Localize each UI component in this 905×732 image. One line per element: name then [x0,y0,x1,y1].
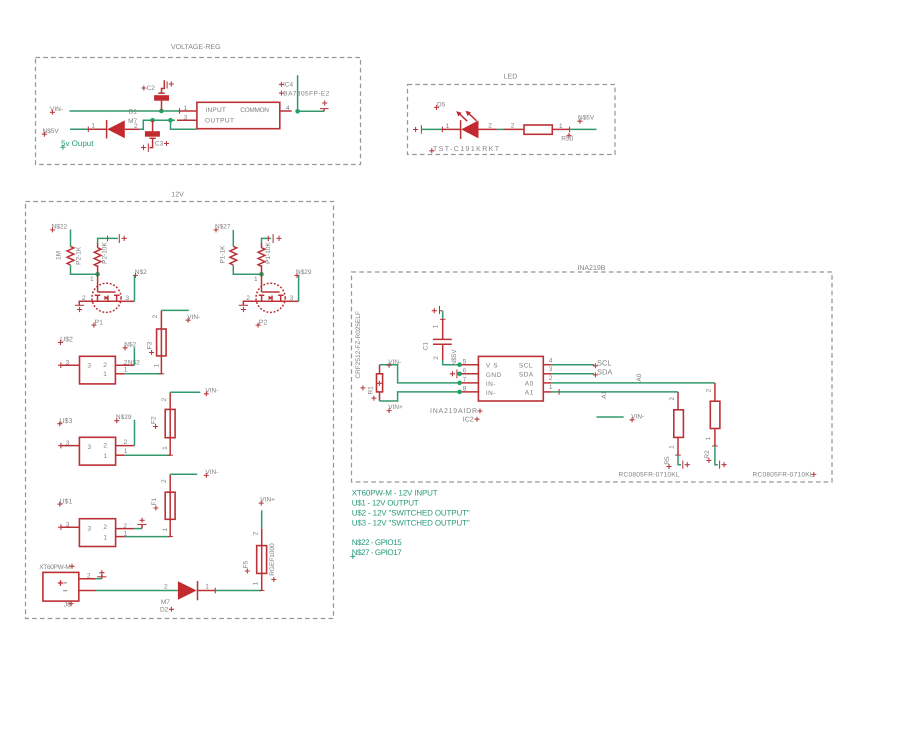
capacitor C3 [145,120,169,147]
svg-text:P2: P2 [259,320,268,327]
svg-text:1: 1 [124,366,128,373]
svg-text:1: 1 [205,584,209,591]
svg-text:N$5V: N$5V [451,349,458,366]
net label N$29 [114,414,132,423]
net label VIN- [387,359,402,368]
net label SDA [593,368,613,378]
value RGEF1000 [269,543,277,582]
svg-text:SDA: SDA [597,368,612,377]
svg-text:R1: R1 [367,386,374,395]
net label N$5V [577,115,595,124]
pin 3 of IC4 [177,119,197,121]
net label VIN- [186,314,201,323]
resistor R5 [674,392,684,455]
value RC0805FR-0710KL right [753,472,817,479]
svg-text:XT60PW-M: XT60PW-M [39,564,70,571]
wire VIN- R1 to pin7 [380,365,460,383]
gnd at P2 source [239,305,248,312]
junction output [168,118,173,123]
svg-text:5: 5 [463,358,467,365]
wire R5 to gnd [678,455,681,465]
svg-text:1: 1 [91,123,95,130]
svg-text:P2-10K: P2-10K [101,241,108,263]
svg-text:RC0805FR-0710KL: RC0805FR-0710KL [619,472,680,479]
wire N$29 vertical [134,420,136,446]
svg-text:INA219AIDR: INA219AIDR [430,408,477,415]
LED D5 [456,111,497,139]
wire F1 to VIN- [170,473,197,475]
net label N$2 [123,341,137,350]
resistor P1-1K [230,246,237,265]
svg-text:N$27 - GPIO17: N$27 - GPIO17 [352,548,403,557]
svg-text:N$22 - GPIO15: N$22 - GPIO15 [352,538,403,547]
svg-text:INPUT: INPUT [205,107,226,114]
svg-text:3: 3 [184,114,188,121]
svg-text:2: 2 [669,397,676,401]
wire gnd to D5 [421,128,442,130]
transistor P2 [256,274,285,312]
pin 1 of U$2 wire to F3 [115,373,124,375]
net label N$5V [42,128,60,137]
svg-text:U$1 - 12V OUTPUT: U$1 - 12V OUTPUT [352,499,419,508]
svg-text:1: 1 [90,276,94,283]
wire A0 [551,382,715,384]
connector U$1 [57,497,72,506]
wire F3 to VIN- [161,309,188,311]
svg-text:1: 1 [549,384,553,391]
resistor P2-10K [94,243,101,274]
svg-text:2: 2 [124,439,128,446]
gnd below R2 [720,461,727,469]
name R5 [664,456,672,469]
wire A1 [551,391,678,393]
svg-text:N$29: N$29 [296,269,312,276]
pin 1 of IC4 [180,110,197,112]
pin 1 of D5 [441,127,443,133]
wire D5 to R50 [497,128,503,130]
net label N$2 [133,269,147,278]
svg-text:1: 1 [668,445,675,449]
svg-text:V S: V S [486,362,498,369]
pin 2 of P2 to gnd [243,301,256,305]
pin 2 of U$3 wire [116,445,135,447]
pin 3 of P2 wire to N$29 [285,300,299,302]
wire SCL [551,364,594,366]
resistor R2 [710,383,720,446]
svg-text:1: 1 [433,324,440,328]
name R2 [704,450,712,463]
svg-text:2: 2 [103,524,107,531]
svg-text:OUTPUT: OUTPUT [205,118,234,125]
svg-text:IN-: IN- [486,381,496,388]
svg-text:F3: F3 [147,341,154,349]
svg-text:SCL: SCL [597,359,612,368]
svg-text:6: 6 [463,368,467,375]
name J8 [64,601,74,608]
resistor R50 [503,125,570,134]
svg-text:2: 2 [164,584,168,591]
svg-text:2: 2 [103,362,107,369]
wire N$2 vertical [133,347,135,365]
pin 1 of J8 wire to D2 [79,590,96,592]
svg-text:2: 2 [152,314,159,318]
pin 3 of P1 wire to N$2 [121,300,135,302]
supply gnd at C3 bottom [141,143,148,152]
name R50 [561,133,573,142]
capacitor C1 [433,311,452,360]
svg-text:F5: F5 [242,560,249,568]
value BA7805FP-E2 [279,90,330,97]
transistor P1 [92,274,121,312]
svg-text:1: 1 [162,446,169,450]
svg-text:8: 8 [463,386,467,393]
svg-text:A0: A0 [525,381,534,388]
wire F5 to VIN+ [261,510,263,528]
svg-text:3: 3 [126,295,130,302]
wire VIN- [70,110,180,112]
svg-text:3: 3 [87,525,91,532]
svg-text:2: 2 [103,443,107,450]
wire C1 to pin5 [443,360,460,365]
name F2 [151,416,159,429]
svg-text:F2: F2 [151,416,158,424]
name D5 [434,102,446,110]
svg-text:A1: A1 [601,390,608,398]
name F5 [242,560,250,573]
fuse F1 [165,474,175,536]
svg-text:R5: R5 [664,456,671,465]
svg-text:C1: C1 [423,342,430,351]
name R1 [360,385,376,400]
name IC4 [279,81,294,88]
right pins of IC2 [543,364,551,366]
wire VIN+ R1 to pin8 [380,392,460,401]
svg-text:2: 2 [253,531,260,535]
wire R50 to N$5V [570,128,596,130]
svg-text:R2: R2 [704,450,711,459]
svg-text:C3: C3 [155,140,164,147]
pin 2 of U$1 wire to gnd [116,528,134,530]
svg-text:SDA: SDA [519,371,534,378]
svg-text:J8: J8 [64,602,71,609]
net label N$27 [214,224,231,233]
svg-text:N$29: N$29 [116,414,132,421]
svg-text:2: 2 [134,123,138,130]
resistor P1-10K [258,243,265,274]
frame VOLTAGE-REG [36,58,361,165]
left pins of IC2 [460,364,479,366]
svg-text:12V: 12V [171,192,184,199]
name INA219AIDR / IC2 [430,408,483,415]
svg-text:VIN+: VIN+ [260,497,275,504]
pin 2 of U$2 wire [115,364,134,366]
svg-text:2: 2 [87,573,91,580]
svg-text:1M: 1M [56,251,63,260]
svg-text:5v Ouput: 5v Ouput [61,139,94,148]
wire resistor to gate node P2 [233,265,261,274]
svg-text:A0: A0 [636,373,643,381]
connector U$2 [58,336,73,345]
frame INA219B [352,272,833,482]
svg-text:3: 3 [66,440,70,447]
svg-text:1: 1 [103,453,107,460]
wire stub VIN- mid [597,416,624,418]
pin 1 of U$3 wire to F2 [116,454,125,456]
name P2 [256,320,268,328]
wire N$5V to D1 [70,128,88,130]
net label VIN- mid [630,413,645,422]
svg-text:VOLTAGE-REG: VOLTAGE-REG [171,44,221,51]
svg-text:P2-1K: P2-1K [76,246,83,265]
wire F2 to VIN- [170,391,200,393]
svg-text:LED: LED [504,73,518,80]
svg-text:1: 1 [705,436,712,440]
gnd below R5 [683,461,690,469]
wire P2-10K to supply [98,238,118,243]
svg-text:1: 1 [253,581,260,585]
junction pin4 [295,109,300,114]
svg-text:1: 1 [446,123,450,130]
gnd right of IC4 [320,100,329,111]
svg-text:2: 2 [161,479,168,483]
net label VIN- [204,469,219,478]
svg-text:COMMON: COMMON [240,107,269,114]
svg-text:P1-10K: P1-10K [265,241,272,263]
net label SCL [593,359,612,369]
pin 2 of P1 to gnd [79,301,92,305]
wire P1-10K to supply [262,238,272,243]
supply +12V right [273,234,282,243]
net label VIN- [204,387,219,396]
svg-text:M7: M7 [161,599,170,606]
svg-text:3: 3 [66,360,70,367]
svg-text:2: 2 [161,398,168,402]
value TST-C191KRKT [429,146,499,153]
diode D2 [178,581,215,600]
shunt resistor R1 [377,365,383,401]
svg-text:N$2: N$2 [124,341,136,348]
wire pin4 to gnd [298,110,325,112]
svg-text:1: 1 [124,448,128,455]
name F3 [147,341,155,355]
svg-text:3: 3 [87,444,91,451]
svg-text:3: 3 [549,366,553,373]
junction gate P1 [95,272,100,277]
wire D2 to F5 [215,590,261,592]
svg-text:2: 2 [706,388,713,392]
pin 2 of J8 to gnd [79,578,96,580]
gnd at P1 source [75,305,84,312]
svg-text:2: 2 [246,295,250,302]
svg-text:1: 1 [103,534,107,541]
svg-text:P1-1K: P1-1K [220,245,227,264]
IC4 regulator box [197,102,280,128]
connector J8 XT60PW-M [39,564,74,571]
svg-text:D2: D2 [160,607,169,614]
wire N$22 to resistor [70,230,72,247]
net label N$22 [50,224,68,233]
svg-text:1: 1 [254,276,258,283]
gnd at J8 pin2 [97,570,106,579]
svg-text:2: 2 [82,295,86,302]
svg-text:XT60PW-M - 12V INPUT: XT60PW-M - 12V INPUT [352,489,438,498]
svg-text:D1: D1 [129,109,138,116]
gnd left of LED [413,125,421,134]
svg-text:TST-C191KRKT: TST-C191KRKT [433,146,500,153]
svg-text:1: 1 [103,371,107,378]
svg-text:N$5V: N$5V [578,115,595,122]
net label VIN- [50,106,63,115]
svg-text:A1: A1 [525,390,534,397]
svg-text:4: 4 [286,105,290,112]
pin 4 of IC4 [280,110,292,112]
svg-text:1: 1 [184,105,188,112]
wire diode to output node [140,120,175,129]
gnd at pin 6 [450,369,457,378]
svg-text:F1: F1 [151,498,158,506]
svg-text:IC4: IC4 [283,81,294,88]
gnd above C1 [432,306,443,314]
pin 3 of U$3 [58,443,64,449]
wire SDA [551,373,594,375]
wire R2 to gnd [715,446,718,465]
svg-text:2: 2 [123,523,127,530]
svg-text:3: 3 [87,363,91,370]
svg-text:U$3 - 12V "SWITCHED OUTPUT": U$3 - 12V "SWITCHED OUTPUT" [352,518,470,527]
svg-text:RC0805FR-0710KL: RC0805FR-0710KL [753,472,814,479]
wire IC4 origin stub [297,75,299,111]
wire output stub under IC [171,120,197,129]
svg-text:IC2: IC2 [463,416,474,423]
net label N$29 [295,269,312,278]
terminal marks [58,580,64,586]
svg-text:2: 2 [488,123,492,130]
pin 1 of D1 [87,127,89,133]
connector U$3 [57,417,72,426]
svg-text:BA7805FP-E2: BA7805FP-E2 [283,90,329,97]
svg-text:7: 7 [463,377,467,384]
svg-text:SCL: SCL [519,362,533,369]
wire resistor to gate node [71,265,98,274]
svg-text:2: 2 [511,122,515,129]
frame LED [408,85,616,155]
svg-text:1: 1 [559,123,563,130]
svg-text:2: 2 [549,375,553,382]
svg-text:3: 3 [66,522,70,529]
wire N$27 to resistor [232,230,234,247]
fuse F3 [157,310,167,373]
svg-text:1: 1 [162,528,169,532]
name P1 [91,320,103,328]
svg-text:R50: R50 [561,135,573,142]
net label VIN+ [259,497,275,506]
frame 12V [26,202,334,619]
supply gnd at C2 top [167,81,174,88]
svg-text:RGEF1000: RGEF1000 [269,543,276,576]
junction gate P2 [259,272,264,277]
svg-text:N$2: N$2 [135,269,147,276]
net label VIN+ [387,404,403,413]
gnd at U$1 pin2 [137,518,146,529]
IC2 INA219AIDR box [478,356,543,401]
name F1 [151,498,159,511]
junctions on left pins [457,362,462,367]
resistor P2-1K [67,246,74,265]
fuse F2 [165,392,175,455]
svg-text:CRF2512-FZ-R025ELF: CRF2512-FZ-R025ELF [355,311,362,379]
svg-text:U$2 - 12V "SWITCHED OUTPUT": U$2 - 12V "SWITCHED OUTPUT" [352,508,470,517]
capacitor C2 [141,80,169,111]
svg-text:P1: P1 [95,320,104,327]
text 5v Ouput [60,139,94,150]
svg-text:1: 1 [153,363,160,367]
svg-text:4: 4 [549,358,553,365]
junction C3 top [150,118,155,123]
pin 3 of U$2 [58,362,64,368]
svg-text:3: 3 [290,295,294,302]
pin 1 of U$1 wire to F1 [116,536,125,538]
junction node C2/VIN- [159,109,164,114]
fuse F5 [257,528,267,590]
svg-text:2: 2 [433,356,440,360]
pin 3 of U$1 [58,524,64,530]
svg-text:IN-: IN- [486,390,496,397]
svg-text:C2: C2 [147,85,156,92]
supply +12V left [119,234,126,243]
svg-text:GND: GND [486,372,502,379]
diode D1 [107,120,140,139]
svg-text:INA219B: INA219B [577,265,605,272]
